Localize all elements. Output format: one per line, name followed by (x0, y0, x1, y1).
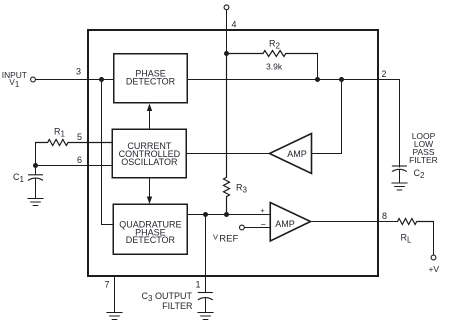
block CURRENT CONTROLLED OSCILLATOR (112, 129, 186, 178)
wire input branch down to quadrature phase detector (102, 80, 114, 225)
svg-text:AMP: AMP (275, 219, 295, 229)
ground (C2) (392, 183, 407, 190)
svg-text:REF: REF (219, 234, 238, 245)
wire pin 7 (114, 276, 116, 313)
ground (C1) (28, 199, 43, 206)
svg-text:+: + (260, 206, 265, 215)
wire RL down to +V (433, 222, 435, 255)
capacitor C2 (392, 165, 406, 167)
capacitor C3 (198, 292, 212, 294)
wire pin4 down to R2 node (226, 10, 228, 54)
terminal VREF (240, 225, 245, 230)
wire feedback down to AMP1 (312, 80, 342, 154)
IC outer box (88, 30, 378, 276)
svg-text:+V: +V (428, 264, 439, 274)
svg-text:5: 5 (77, 132, 82, 142)
wire / resistor R3 vertical branch (224, 54, 230, 215)
capacitor C1 (35, 166, 37, 175)
wire AMP2 output to pin 8 / RL (311, 221, 398, 223)
wire R2 right leg down (317, 54, 319, 80)
svg-text:6: 6 (77, 155, 82, 165)
node R1/C1/pin6 (33, 163, 38, 168)
svg-text:FILTER: FILTER (162, 301, 193, 311)
wire phase detector output to pin 2 (187, 79, 399, 81)
ground (pin 1 / C3) (198, 313, 213, 320)
node amp1 feedback on PD wire (339, 77, 344, 82)
wire AMP1 to CCO (186, 153, 269, 155)
resistor R2 (227, 51, 318, 57)
wire QPD output to AMP2 plus input (187, 214, 270, 216)
op-amp AMP1 (points left) (270, 134, 312, 174)
node input branch (99, 77, 104, 82)
resistor RL (398, 219, 434, 225)
wire pin 2 elbow down to C2 (399, 80, 401, 168)
wire pin 6 (36, 165, 113, 167)
wire arrow CCO to phase detector (149, 111, 151, 130)
resistor R1 (36, 140, 113, 146)
ground (pin 7) (107, 313, 122, 320)
svg-text:DETECTOR: DETECTOR (126, 235, 176, 245)
svg-text:OSCILLATOR: OSCILLATOR (121, 157, 178, 167)
svg-text:4: 4 (232, 20, 237, 30)
svg-text:7: 7 (104, 280, 109, 290)
node R3 bottom (224, 212, 229, 217)
svg-text:3.9k: 3.9k (266, 62, 283, 72)
node R2 to PD output wire (315, 77, 320, 82)
svg-text:2: 2 (382, 69, 387, 79)
svg-text:3: 3 (76, 67, 81, 77)
terminal INPUT V1 (31, 77, 36, 82)
svg-text:V: V (213, 233, 218, 242)
terminal +V (431, 255, 436, 260)
wire pin 1 down to C3 (205, 215, 207, 293)
node pin1 branch (203, 212, 208, 217)
block PHASE DETECTOR (114, 54, 188, 103)
svg-text:1: 1 (195, 280, 200, 290)
node R2/R3/pin4 junction (224, 51, 229, 56)
block QUADRATURE PHASE DETECTOR (113, 204, 187, 254)
terminal pin 4 (top) (224, 5, 229, 10)
wire R1 left leg down (35, 143, 37, 166)
svg-text:FILTER: FILTER (409, 155, 438, 165)
wire arrow CCO to quadrature phase detector (149, 178, 151, 197)
svg-text:8: 8 (382, 211, 387, 221)
wire VREF to AMP2 minus input (245, 227, 270, 229)
svg-text:−: − (261, 219, 266, 229)
op-amp AMP2 (points right) (270, 203, 310, 242)
svg-text:AMP: AMP (287, 149, 307, 159)
svg-text:DETECTOR: DETECTOR (126, 77, 176, 87)
wire input to phase detector (36, 79, 114, 81)
